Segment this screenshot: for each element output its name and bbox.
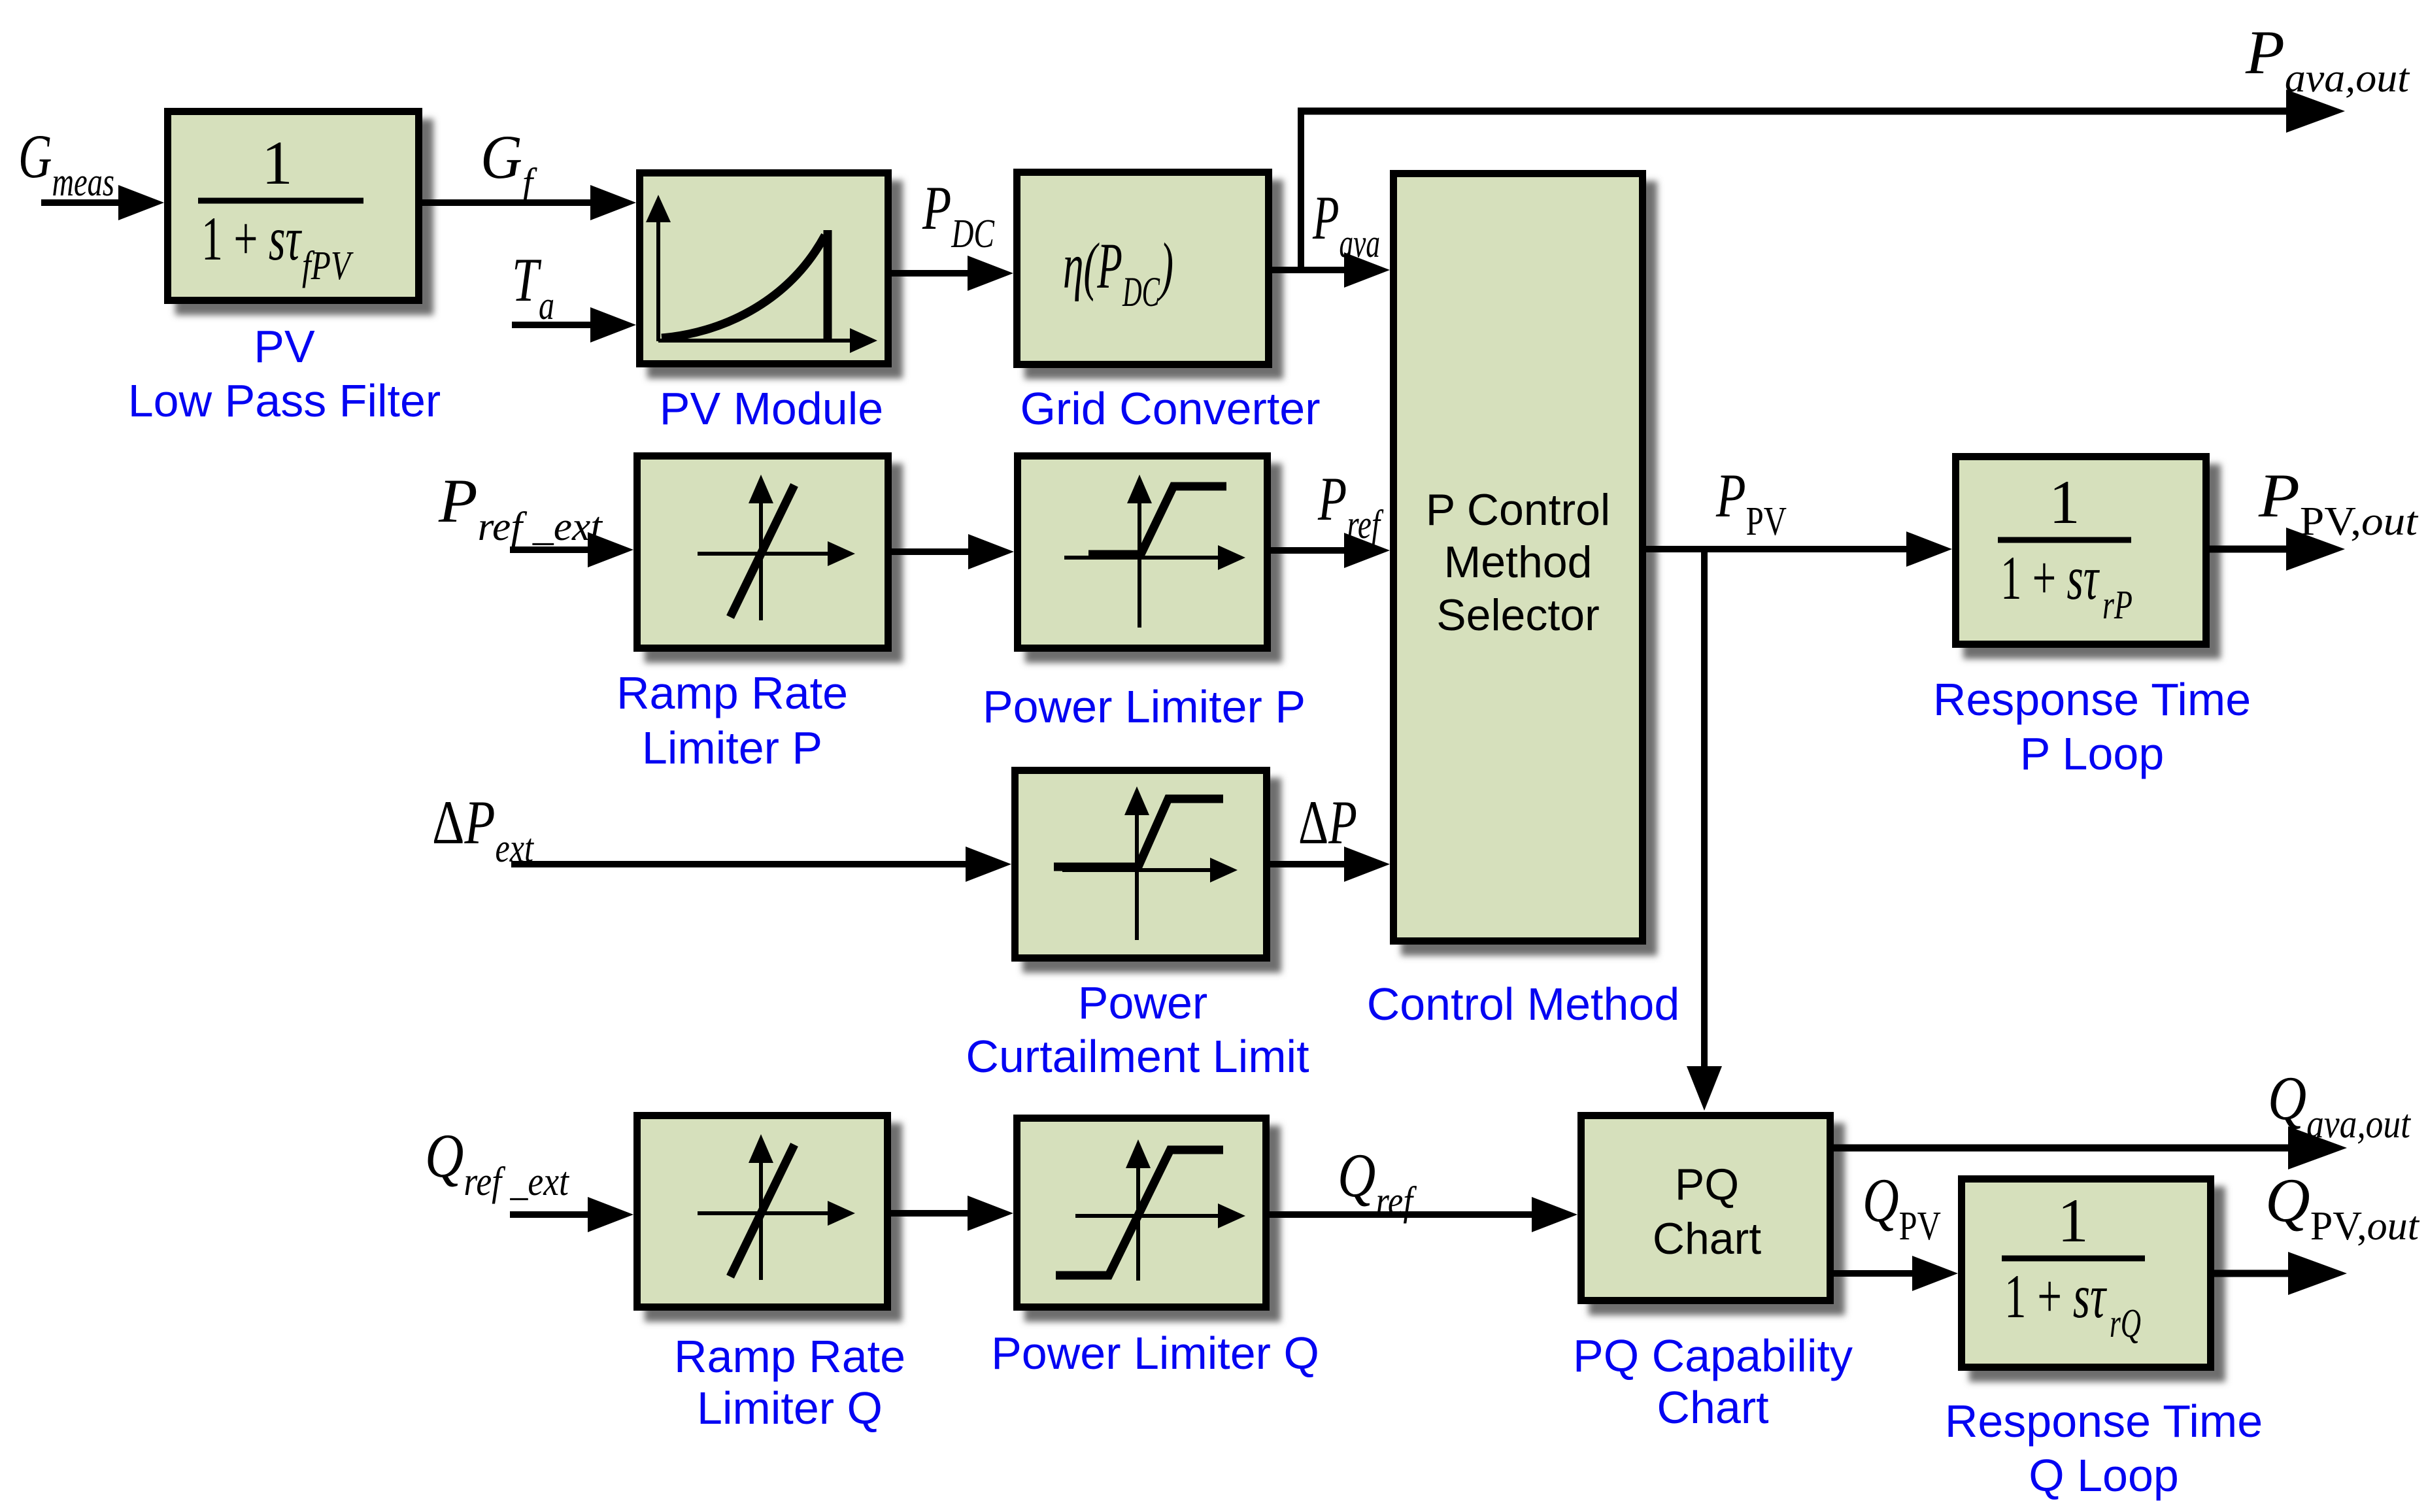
wire Q_ava,out bbox=[1834, 1126, 2347, 1169]
svg-text:Method: Method bbox=[1444, 537, 1593, 587]
svg-text:ΔP: ΔP bbox=[1298, 788, 1357, 857]
block Power Curtailment Limit bbox=[1015, 771, 1282, 973]
svg-text:rQ: rQ bbox=[2110, 1302, 2141, 1346]
svg-text:PQ: PQ bbox=[1675, 1160, 1739, 1209]
label Ramp Rate Limiter Q bbox=[674, 1331, 905, 1434]
block PV Module bbox=[640, 173, 903, 379]
label PQ Capability Chart bbox=[1573, 1330, 1853, 1433]
wire Q_ref_ext input bbox=[510, 1197, 633, 1232]
svg-text:PV Module: PV Module bbox=[660, 383, 883, 434]
node P_PV,out bbox=[2258, 461, 2419, 544]
svg-text:P Control: P Control bbox=[1426, 485, 1610, 535]
label Ramp Rate Limiter P bbox=[616, 667, 848, 773]
block Power Limiter P bbox=[1018, 456, 1283, 664]
node G_f bbox=[481, 122, 537, 205]
svg-text:1 + sτ: 1 + sτ bbox=[2000, 543, 2100, 613]
label Response Time P Loop bbox=[1933, 674, 2251, 779]
svg-text:P Loop: P Loop bbox=[2020, 728, 2165, 779]
svg-text:Power: Power bbox=[1078, 977, 1207, 1028]
node T_a bbox=[512, 245, 554, 328]
block Response Time Q Loop bbox=[1962, 1179, 2226, 1383]
svg-text:1 + sτ: 1 + sτ bbox=[2004, 1262, 2107, 1331]
svg-text:Chart: Chart bbox=[1653, 1214, 1761, 1264]
wire P_ava,out bbox=[1298, 90, 2345, 133]
svg-text:Ramp Rate: Ramp Rate bbox=[616, 667, 848, 718]
svg-text:Chart: Chart bbox=[1657, 1382, 1768, 1433]
wire P_ref bbox=[1271, 533, 1390, 568]
node Q_ref_ext bbox=[425, 1121, 570, 1204]
svg-text:1: 1 bbox=[2057, 1186, 2089, 1255]
svg-text:Control Method: Control Method bbox=[1367, 979, 1680, 1030]
wire Q_PV bbox=[1834, 1256, 1958, 1291]
node G_meas bbox=[18, 122, 114, 205]
label Power Limiter P bbox=[983, 681, 1306, 732]
svg-text:Grid Converter: Grid Converter bbox=[1020, 383, 1320, 434]
wire P_ava bbox=[1272, 252, 1390, 288]
svg-text:Limiter P: Limiter P bbox=[642, 722, 822, 773]
node P_ava,out bbox=[2245, 18, 2410, 101]
svg-text:Q Loop: Q Loop bbox=[2029, 1450, 2179, 1501]
wire Delta P bbox=[1270, 847, 1390, 882]
wire P_ref_ext input bbox=[510, 532, 633, 567]
svg-text:Response Time: Response Time bbox=[1945, 1396, 2263, 1447]
node P_ref_ext bbox=[438, 466, 603, 549]
label Response Time Q Loop bbox=[1945, 1396, 2263, 1501]
block Ramp Rate Limiter P bbox=[637, 456, 903, 664]
svg-text:Selector: Selector bbox=[1436, 590, 1599, 640]
node Q_ref bbox=[1338, 1141, 1417, 1224]
node P_DC bbox=[922, 173, 994, 256]
wire P_PV bbox=[1646, 531, 1952, 567]
block P Control Method Selector bbox=[1394, 174, 1658, 956]
svg-text:PV: PV bbox=[254, 321, 315, 372]
node Q_PV bbox=[1863, 1166, 1941, 1249]
block Power Limiter Q bbox=[1017, 1118, 1281, 1322]
wire P_ava branch up bbox=[1298, 111, 1304, 270]
node P_PV bbox=[1715, 461, 1787, 544]
wire Delta P_ext input bbox=[511, 847, 1011, 882]
svg-text:PQ Capability: PQ Capability bbox=[1573, 1330, 1853, 1381]
svg-text:Power Limiter P: Power Limiter P bbox=[983, 681, 1306, 732]
label PV Module bbox=[660, 383, 883, 434]
block Grid Converter bbox=[1017, 173, 1284, 380]
node Q_ava,out bbox=[2268, 1064, 2412, 1147]
wire T_a input bbox=[512, 307, 636, 343]
svg-text:1: 1 bbox=[261, 128, 293, 197]
wire ramp Q to limiter Q bbox=[891, 1196, 1013, 1231]
wire Q_PV,out bbox=[2214, 1252, 2347, 1295]
block PQ Chart bbox=[1581, 1116, 1846, 1316]
svg-text:1: 1 bbox=[2049, 467, 2080, 537]
svg-text:Curtailment Limit: Curtailment Limit bbox=[966, 1031, 1309, 1082]
label PV Low Pass Filter bbox=[128, 321, 441, 426]
svg-text:1 + sτ: 1 + sτ bbox=[201, 204, 302, 273]
wire Q_ref bbox=[1270, 1197, 1577, 1232]
node P_ava bbox=[1312, 183, 1380, 266]
block Ramp Rate Limiter Q bbox=[637, 1116, 903, 1322]
wire P_PV branch down to PQ chart bbox=[1687, 549, 1722, 1111]
svg-text:Power Limiter Q: Power Limiter Q bbox=[991, 1328, 1319, 1379]
wire G_f bbox=[422, 185, 636, 220]
label Grid Converter bbox=[1020, 383, 1320, 434]
wire P_DC bbox=[892, 256, 1013, 291]
wire P_PV,out bbox=[2210, 528, 2345, 571]
svg-text:Limiter Q: Limiter Q bbox=[697, 1383, 883, 1434]
label Control Method bbox=[1367, 979, 1680, 1030]
node P_ref bbox=[1317, 464, 1384, 547]
label Power Curtailment Limit bbox=[966, 977, 1309, 1082]
svg-text:Ramp Rate: Ramp Rate bbox=[674, 1331, 905, 1382]
block PV Low Pass Filter bbox=[168, 112, 434, 316]
node Delta P_ext bbox=[432, 788, 534, 871]
svg-text:Response Time: Response Time bbox=[1933, 674, 2251, 725]
wire ramp P to limiter P bbox=[892, 534, 1014, 569]
svg-text:fPV: fPV bbox=[302, 244, 354, 288]
wire G_meas input bbox=[41, 185, 164, 220]
svg-text:Low Pass Filter: Low Pass Filter bbox=[128, 375, 441, 426]
svg-text:rP: rP bbox=[2102, 583, 2133, 628]
node Q_PV,out bbox=[2265, 1166, 2420, 1249]
block Response Time P Loop bbox=[1956, 457, 2221, 660]
node Delta P bbox=[1298, 788, 1357, 857]
label Power Limiter Q bbox=[991, 1328, 1319, 1379]
